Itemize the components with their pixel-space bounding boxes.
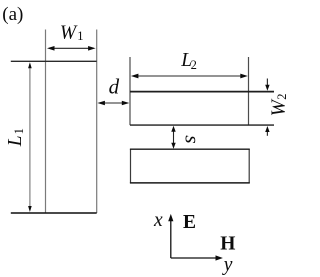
patch 1 bottom edge [11,212,97,214]
patch 1 top edge [11,60,97,62]
axis y arrow [171,255,223,260]
patch 3 bottom edge [130,182,250,184]
patch 1 left edge [45,30,47,214]
svg-text:2: 2 [275,94,289,100]
label W2 [269,98,290,116]
patch 3 right edge [248,149,250,183]
dimension s arrow [171,126,175,149]
patch 2 right edge with extension [248,57,250,125]
label L1 [5,135,26,147]
svg-text:1: 1 [77,29,83,43]
svg-text:s: s [181,135,205,143]
svg-text:L: L [5,135,26,147]
label s [181,135,205,143]
svg-text:H: H [220,234,235,255]
svg-text:d: d [109,75,120,99]
svg-text:x: x [153,210,163,231]
patch 3 top edge [130,148,250,150]
dimension L2 arrow [131,74,248,79]
svg-text:E: E [183,212,196,233]
svg-text:y: y [222,255,233,276]
patch 2 bottom edge with right extension [130,124,274,126]
svg-text:W: W [269,98,290,116]
svg-text:1: 1 [12,128,26,134]
dimension W2 upper arrow [265,79,269,91]
svg-text:W: W [60,23,78,44]
dimension W2 lower arrow [265,126,269,136]
svg-text:(a): (a) [2,4,23,25]
patch 1 right edge [96,30,98,214]
axis x arrow [168,214,173,258]
dimension d arrow [97,101,129,106]
dimension W1 arrow [47,46,96,51]
patch 2 top edge with right extension [130,91,274,93]
dimension L1 arrow [28,62,32,212]
svg-text:2: 2 [191,58,197,72]
patch 2 left edge with extension [129,57,131,125]
patch 3 left edge [130,149,132,183]
